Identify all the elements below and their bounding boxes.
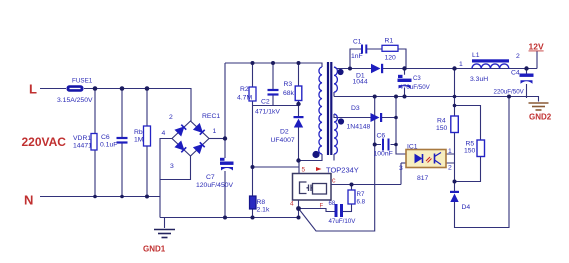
svg-text:C1: C1 [353, 39, 362, 46]
svg-text:4: 4 [162, 130, 166, 137]
svg-text:0.1uF: 0.1uF [100, 142, 117, 149]
svg-text:150: 150 [436, 125, 448, 132]
svg-text:F: F [320, 204, 324, 210]
svg-text:Rb: Rb [134, 129, 143, 136]
svg-text:68k: 68k [283, 90, 295, 97]
svg-text:470uF/50V: 470uF/50V [400, 84, 431, 91]
svg-text:1nF: 1nF [351, 53, 363, 60]
svg-text:2.1k: 2.1k [257, 207, 270, 214]
svg-text:1: 1 [459, 61, 463, 68]
svg-text:471/1kV: 471/1kV [255, 109, 280, 116]
svg-text:UF4007: UF4007 [271, 137, 295, 144]
svg-text:D3: D3 [351, 105, 360, 112]
svg-text:3: 3 [170, 163, 174, 170]
svg-text:TOP234Y: TOP234Y [326, 166, 359, 175]
svg-text:C3: C3 [413, 76, 421, 82]
svg-text:N: N [24, 193, 33, 208]
svg-text:2: 2 [448, 165, 452, 172]
svg-text:R7: R7 [357, 191, 365, 198]
svg-text:REC1: REC1 [202, 113, 220, 120]
svg-text:68: 68 [329, 201, 336, 207]
svg-text:R3: R3 [284, 81, 293, 88]
svg-text:120: 120 [385, 55, 397, 62]
svg-text:47uF/10V: 47uF/10V [329, 218, 357, 225]
svg-text:5: 5 [302, 167, 306, 174]
svg-text:L: L [29, 82, 37, 97]
svg-text:14471: 14471 [73, 143, 92, 150]
svg-text:1: 1 [213, 128, 217, 135]
svg-text:C7: C7 [206, 174, 215, 181]
svg-text:120uF/450V: 120uF/450V [196, 182, 234, 189]
svg-text:L1: L1 [472, 52, 480, 59]
svg-text:3.3uH: 3.3uH [470, 76, 488, 83]
svg-text:R4: R4 [437, 118, 446, 125]
svg-text:D4: D4 [462, 204, 471, 211]
svg-text:817: 817 [417, 175, 429, 182]
svg-text:150: 150 [464, 148, 476, 155]
svg-text:GND1: GND1 [143, 245, 166, 254]
svg-text:12V: 12V [529, 42, 544, 52]
svg-text:4.7M: 4.7M [237, 95, 252, 102]
svg-text:IC1: IC1 [407, 144, 418, 151]
svg-text:R8: R8 [257, 199, 266, 206]
svg-text:1N4148: 1N4148 [347, 124, 371, 131]
svg-text:220uF/50V: 220uF/50V [494, 89, 525, 96]
svg-text:R1: R1 [385, 38, 394, 45]
svg-text:220VAC: 220VAC [22, 135, 67, 149]
svg-text:c: c [332, 178, 336, 185]
svg-text:D2: D2 [280, 129, 289, 136]
svg-text:2: 2 [516, 53, 520, 60]
svg-text:C6: C6 [377, 133, 386, 140]
svg-text:1044: 1044 [353, 79, 368, 86]
svg-text:1: 1 [448, 148, 452, 155]
svg-text:4: 4 [290, 201, 294, 208]
svg-text:C4: C4 [511, 70, 520, 77]
svg-text:3: 3 [399, 165, 403, 172]
svg-text:1M: 1M [134, 137, 144, 144]
svg-text:FUSE1: FUSE1 [72, 78, 93, 85]
svg-text:6.8: 6.8 [357, 199, 366, 206]
svg-text:R5: R5 [466, 141, 475, 148]
svg-text:R2: R2 [240, 86, 249, 93]
svg-text:3.15A/250V: 3.15A/250V [57, 97, 93, 104]
svg-text:2: 2 [169, 114, 173, 121]
svg-text:100nF: 100nF [374, 151, 393, 158]
svg-text:C6: C6 [101, 134, 110, 141]
svg-text:GND2: GND2 [529, 113, 552, 122]
svg-text:C2: C2 [261, 99, 270, 106]
svg-text:VDR1: VDR1 [73, 135, 91, 142]
